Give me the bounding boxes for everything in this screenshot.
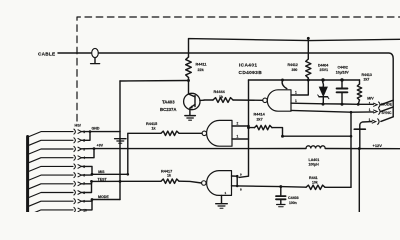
wire GND row	[81, 131, 120, 133]
resistor R441 10k	[306, 176, 351, 190]
svg-text:BC237A: BC237A	[160, 107, 176, 112]
resistor R4415 1k	[128, 122, 202, 175]
svg-text:2k7: 2k7	[364, 78, 370, 82]
svg-text:CD4093B: CD4093B	[239, 70, 263, 76]
svg-text:ICA401: ICA401	[239, 63, 257, 69]
connector pin 6	[28, 172, 86, 180]
connector pin 7	[28, 181, 86, 189]
wire contact3 to stub	[360, 122, 372, 129]
resistor R4411 22k	[186, 57, 207, 78]
wire TEST row	[92, 180, 162, 182]
wire vertical net B248	[239, 80, 249, 177]
node M/S join	[127, 173, 130, 176]
wire +9V row	[81, 148, 94, 150]
op-amp gate U1B CD4093 NAND	[202, 120, 232, 146]
wire MODE contact tail	[381, 100, 393, 105]
svg-text:SYNC: SYNC	[382, 111, 392, 115]
wire +12V rail right	[325, 148, 400, 150]
svg-text:R4414: R4414	[254, 113, 266, 117]
svg-text:R441: R441	[309, 176, 318, 180]
connector pin 5	[28, 164, 86, 172]
connector pin 8	[28, 190, 86, 198]
svg-text:100μH: 100μH	[309, 163, 320, 167]
wire top rail to R4411	[189, 39, 400, 57]
svg-text:R4415: R4415	[146, 122, 157, 126]
inductor LA401 100uH	[306, 146, 325, 167]
svg-text:22k: 22k	[198, 68, 205, 72]
wire junction to bus A	[120, 80, 189, 83]
svg-text:2: 2	[237, 122, 239, 126]
connector pin 4	[28, 155, 86, 163]
stub bar to rail	[354, 128, 365, 130]
IC U1 label ICA401 CD4093B	[239, 63, 263, 76]
capacitor C4402 10u/16V	[336, 66, 350, 106]
node R4411 junction	[187, 79, 190, 82]
capacitor C4403 100n	[276, 187, 299, 207]
connector pin 3	[28, 146, 86, 154]
wire MODE row	[92, 199, 120, 201]
wire R441 line	[237, 185, 281, 188]
svg-text:M/V: M/V	[367, 96, 374, 100]
ground at GND pin	[115, 139, 126, 144]
svg-text:GND: GND	[92, 127, 100, 131]
connector pin 9	[28, 198, 86, 206]
wire U1C inputs tied	[232, 175, 238, 177]
resistor R4417 1k	[161, 170, 202, 184]
svg-text:10μ/16V: 10μ/16V	[336, 71, 350, 75]
wire U1A pin1 to rail	[291, 80, 308, 95]
wire M/S row	[81, 173, 127, 176]
svg-text:1: 1	[237, 135, 239, 139]
svg-text:M/S: M/S	[98, 170, 105, 174]
svg-text:390: 390	[292, 68, 298, 72]
cable shield connector and ground	[91, 48, 100, 63]
connector pin 10	[28, 207, 87, 215]
wire pin9 join	[81, 200, 92, 202]
svg-text:LA401: LA401	[309, 158, 320, 162]
wire pin8 join	[81, 181, 91, 192]
wire pin7 join	[81, 181, 91, 183]
switch contact SYNC	[373, 107, 393, 115]
shield boundary (dashed cable screen)	[77, 17, 400, 121]
svg-text:2SV1: 2SV1	[320, 68, 329, 72]
svg-text:1: 1	[369, 108, 371, 112]
connector pin 1	[28, 129, 86, 137]
svg-text:R4412: R4412	[288, 63, 298, 67]
wire gate supply rail	[249, 79, 360, 81]
wire vertical A	[119, 81, 121, 200]
svg-text:R4411: R4411	[196, 63, 207, 67]
svg-text:CABLE: CABLE	[38, 51, 55, 56]
resistor R4444 1k	[204, 90, 263, 102]
svg-text:TEST: TEST	[98, 177, 108, 181]
svg-text:C4402: C4402	[338, 66, 348, 70]
wire pin5 join	[81, 166, 92, 174]
node SYNC branch	[350, 111, 353, 114]
svg-text:100n: 100n	[289, 201, 297, 205]
diode D4404 zener	[318, 63, 329, 105]
wire pin10 join	[81, 200, 92, 210]
wire vertical from SYNC to R441 line	[350, 112, 352, 187]
svg-text:MODE: MODE	[98, 195, 109, 199]
svg-text:+12V: +12V	[373, 143, 383, 148]
connector pin 2	[28, 138, 86, 146]
wire MODE line (U1A pin2)	[291, 103, 373, 104]
wire x358 down	[358, 149, 360, 212]
wire U1B inputs	[232, 125, 249, 127]
op-amp gate U1A CD4093 NAND	[263, 90, 291, 111]
connector bus cable	[26, 137, 29, 213]
switch contact 3	[372, 117, 393, 125]
svg-text:C4403: C4403	[288, 196, 299, 200]
svg-text:HS/: HS/	[75, 124, 82, 128]
resistor R4413 2k7	[357, 73, 372, 106]
wire R4414 to x351	[283, 135, 352, 137]
resistor R4412 390	[288, 37, 311, 82]
svg-text:2k7: 2k7	[257, 117, 263, 121]
svg-text:+9V: +9V	[97, 144, 104, 148]
node rail tap to U1A	[281, 79, 284, 82]
svg-text:TA403: TA403	[162, 99, 175, 104]
switch contact MODE	[373, 102, 392, 108]
svg-text:1: 1	[369, 101, 371, 105]
svg-text:1: 1	[295, 91, 297, 95]
transistor TA403 BC237A	[160, 81, 204, 116]
svg-text:R4413: R4413	[362, 73, 372, 77]
wire cable lead-in	[58, 52, 92, 54]
wire SYNC line	[291, 110, 373, 112]
svg-text:10k: 10k	[312, 180, 318, 184]
ground under TA403	[185, 116, 195, 121]
wire pin2 join	[81, 132, 90, 141]
svg-text:D4404: D4404	[318, 63, 328, 67]
resistor R4414 2k7	[247, 113, 284, 138]
op-amp gate U1C CD4093 NAND	[202, 171, 232, 196]
wire +12V rail left	[94, 148, 306, 150]
ground under U1C	[216, 195, 228, 208]
wire cable centre conductor	[98, 53, 393, 117]
svg-text:R4444: R4444	[214, 90, 226, 94]
wire pin4 join	[81, 149, 94, 158]
